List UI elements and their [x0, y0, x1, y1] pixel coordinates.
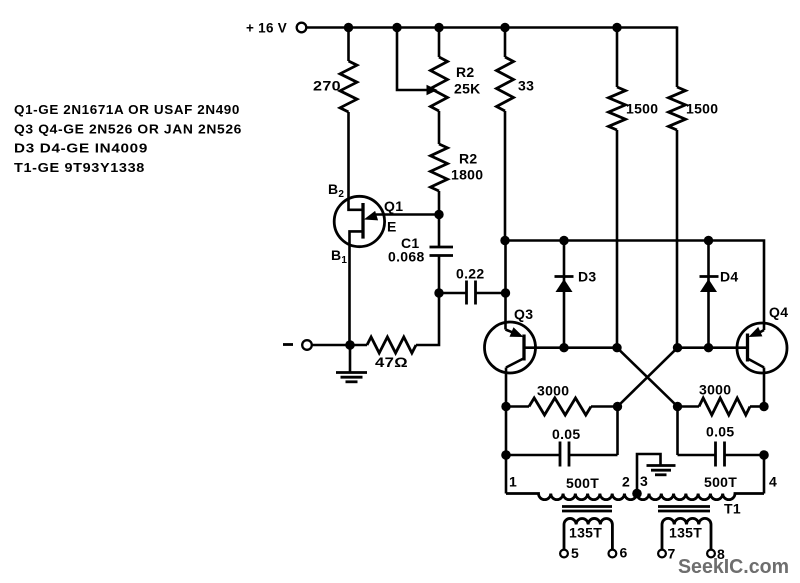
wire 1500 left top lead [616, 28, 619, 88]
svg-text:6: 6 [620, 545, 628, 561]
svg-text:25K: 25K [454, 81, 481, 97]
wire 25K to 1800 [438, 111, 441, 144]
wire 47 left lead [350, 344, 367, 347]
wire 0.05L right vertical [616, 407, 619, 456]
terminal 6 [609, 550, 617, 558]
transformer core right [658, 507, 710, 512]
transformer T1 primary winding [506, 494, 764, 500]
ground center tap [647, 466, 676, 475]
wire R2 wiper arm [397, 28, 429, 91]
svg-text:3: 3 [640, 473, 648, 489]
wire 0.05L left vertical [505, 407, 508, 456]
svg-text:1: 1 [509, 474, 517, 490]
svg-text:T1: T1 [724, 501, 741, 517]
wire emitter rail [505, 241, 764, 331]
wire Q4 collector vertical [763, 368, 766, 407]
wire +16V rail [306, 26, 677, 29]
label minus dash [283, 343, 293, 346]
svg-text:Q3: Q3 [514, 306, 533, 322]
svg-text:33: 33 [518, 78, 534, 94]
svg-text:D3: D3 [578, 269, 597, 285]
wire center tap to ground [637, 454, 661, 494]
svg-text:R2: R2 [459, 151, 478, 167]
node Q4 base rail mid [673, 343, 682, 352]
wire minus terminal to node [312, 344, 350, 347]
resistor 3000 right [699, 398, 750, 415]
wire Q3 collector vertical [505, 368, 508, 407]
wire ground drop [349, 345, 352, 372]
terminal minus [302, 340, 312, 350]
svg-text:R2: R2 [456, 64, 475, 80]
svg-text:0.068: 0.068 [388, 249, 425, 265]
svg-text:1800: 1800 [451, 167, 483, 183]
transistor Q1 unijunction [334, 196, 439, 246]
wire rail corner to 1500 right [676, 26, 679, 87]
svg-text:Q1-GE 2N1671A OR USAF 2N490: Q1-GE 2N1671A OR USAF 2N490 [14, 102, 240, 117]
wire 3000L right lead [591, 405, 618, 408]
wire 1500 left to Q3 base rail [616, 130, 619, 348]
wire 33 top lead [504, 28, 507, 58]
resistor 33 [497, 57, 514, 111]
wire 0.05L right lead [569, 454, 618, 457]
node rail 33 [500, 23, 509, 32]
wire C1 to lower node [438, 256, 441, 293]
transformer T1 secondary right 135T [662, 518, 711, 549]
wire Q1 B1 lead down to minus rail [350, 231, 363, 345]
svg-text:4: 4 [769, 474, 777, 490]
terminal +16V [297, 23, 307, 33]
wire 1800 to emitter node [438, 191, 441, 215]
node 3000R left [673, 402, 682, 411]
resistor 1500 left [609, 87, 626, 130]
svg-text:2: 2 [622, 474, 630, 490]
wire 0.05R right lead [725, 454, 765, 457]
svg-text:47Ω: 47Ω [375, 354, 408, 370]
wire 0.05R left lead [678, 454, 716, 457]
svg-text:0.05: 0.05 [706, 424, 734, 440]
node 3000L left [501, 402, 510, 411]
wire cross couple A [617, 348, 678, 407]
node rail 1500 [612, 23, 621, 32]
resistor 3000 left [529, 398, 591, 415]
svg-text:3000: 3000 [537, 383, 569, 399]
node Q3 base rail mid [612, 343, 621, 352]
wire 1500 right to Q4 base rail [676, 130, 679, 348]
transistor Q4 [737, 323, 787, 373]
wire 3000L left lead [506, 405, 529, 408]
svg-text:T1-GE 9T93Y1338: T1-GE 9T93Y1338 [14, 160, 145, 175]
svg-text:5: 5 [571, 545, 579, 561]
svg-text:E: E [387, 219, 397, 235]
resistor 1500 right [669, 87, 686, 130]
svg-text:Q3 Q4-GE 2N526 OR JAN 2N526: Q3 Q4-GE 2N526 OR JAN 2N526 [14, 122, 242, 137]
svg-text:+ 16 V: + 16 V [246, 20, 287, 36]
transformer core left [562, 507, 612, 512]
terminal 7 [658, 550, 666, 558]
wire 33 down to emitter rail [504, 111, 507, 241]
node emitter junction [434, 210, 443, 219]
node rail 270 [344, 23, 353, 32]
svg-text:D3 D4-GE IN4009: D3 D4-GE IN4009 [14, 141, 148, 156]
diode D3 [555, 241, 574, 348]
wire Q4 base rail [678, 346, 748, 349]
wire terminal 1 vertical [505, 455, 508, 494]
node D3 bottom [559, 343, 568, 352]
capacitor 0.22 [467, 281, 476, 305]
wire 3000R right lead [750, 405, 764, 408]
wire node to C1 [438, 215, 441, 247]
wire Q3 emitter vertical [504, 241, 507, 330]
node 0.22 left [434, 288, 443, 297]
wire 0.05L left lead [506, 454, 560, 457]
capacitor 0.05 right [716, 442, 725, 467]
svg-text:D4: D4 [720, 269, 739, 285]
terminal 5 [560, 550, 568, 558]
potentiometer R2 25K [431, 57, 448, 111]
wire 0.22 left lead [439, 292, 466, 295]
node 3000L right [613, 402, 622, 411]
svg-text:0.05: 0.05 [552, 426, 580, 442]
svg-text:500T: 500T [566, 475, 599, 491]
svg-text:270: 270 [313, 78, 341, 94]
node 3000R right [759, 402, 768, 411]
svg-text:135T: 135T [569, 525, 602, 541]
node center tap [632, 489, 642, 499]
wire 0.22 right lead [476, 292, 506, 295]
svg-text:135T: 135T [669, 525, 702, 541]
wire node down to 47 ohm corner [416, 293, 439, 345]
ground left [336, 373, 367, 382]
wire cross couple B [618, 348, 678, 407]
node rail wiper [392, 23, 401, 32]
wire 270 to Q1 B2 lead [349, 112, 363, 210]
svg-text:3000: 3000 [699, 382, 731, 398]
svg-text:1500: 1500 [626, 101, 658, 117]
svg-text:SeekIC.com: SeekIC.com [678, 555, 789, 578]
capacitor C1 [430, 247, 454, 256]
node minus junction [345, 340, 355, 350]
transformer T1 secondary left 135T [564, 518, 612, 549]
terminal 8 [707, 550, 715, 558]
wire 270 top lead [347, 28, 350, 62]
capacitor 0.05 left [560, 442, 569, 467]
node 0.05L left [501, 450, 511, 460]
svg-text:500T: 500T [704, 474, 737, 490]
svg-text:1500: 1500 [686, 101, 718, 117]
node D4 top [704, 236, 713, 245]
resistor 270 [340, 61, 357, 112]
node rail 25K [434, 23, 443, 32]
resistor 47 ohm [367, 337, 416, 353]
wiper arrowhead [427, 85, 438, 95]
diode D4 [700, 241, 719, 348]
node 0.05R right [759, 450, 769, 460]
wire 0.05R left vertical [676, 407, 679, 456]
svg-text:0.22: 0.22 [456, 266, 484, 282]
transistor Q3 [485, 322, 536, 373]
node 0.22 right [501, 288, 510, 297]
svg-text:Q1: Q1 [384, 198, 403, 214]
wire terminal 4 vertical [763, 455, 766, 494]
svg-text:Q4: Q4 [769, 304, 788, 320]
node D3 top [559, 236, 568, 245]
resistor R2 1800 [431, 144, 448, 191]
wire Q3 base rail [525, 346, 618, 349]
wire 3000R left lead [678, 405, 700, 408]
node D4 bottom [704, 343, 713, 352]
svg-text:7: 7 [668, 546, 676, 562]
wire R2 25K top lead [438, 28, 441, 58]
node emitter rail left [500, 236, 509, 245]
